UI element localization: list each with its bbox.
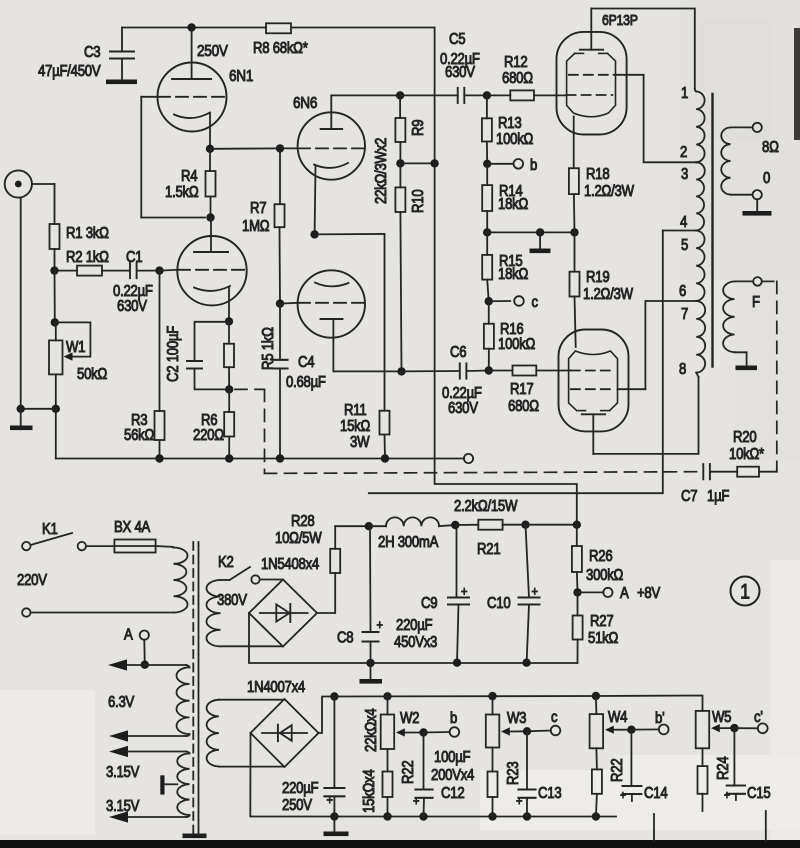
pin 6 [679,283,686,300]
svg-text:56kΩ: 56kΩ [124,427,155,444]
wiper W4 [605,726,631,734]
resistor R22b [592,758,626,816]
svg-text:+: + [327,792,333,807]
wiper W3 [501,727,527,735]
pin 7 [681,306,688,323]
resistor R10 [395,163,427,371]
capacitor C11 220uF 250V [282,697,344,817]
svg-text:5: 5 [681,237,688,254]
resistor R17 [489,366,571,416]
wire feedback dashed F to R20 [762,281,777,469]
wire R1 node to W1 [54,271,56,323]
wire V4 plate to OPT pin8 [593,377,698,454]
wire jack shield to ground [20,198,22,409]
junction W4 wiper node [627,726,659,734]
svg-text:W1: W1 [66,339,85,356]
svg-text:c: c [532,294,538,311]
svg-text:+: + [532,584,538,599]
svg-text:+: + [620,789,626,802]
svg-text:R4: R4 [181,168,198,185]
capacitor C14 [620,730,668,803]
svg-text:1MΩ: 1MΩ [242,218,270,235]
svg-text:3.15V: 3.15V [106,798,140,815]
junction R10 bottom / plate [397,367,405,375]
resistor R23 [488,761,523,816]
svg-text:K2: K2 [218,554,234,571]
terminal 0 [753,170,771,199]
junction R1/R2 [50,266,58,274]
svg-text:1µF: 1µF [707,488,730,505]
junction W1 bottom / ground wire [17,405,61,413]
capacitor C7 [681,464,737,505]
arrow heater feed [108,659,145,670]
svg-text:R17: R17 [510,381,534,398]
wire bridge1 minus to ground bus [249,613,578,663]
wire bias winding to bridge2 [219,700,285,767]
svg-text:250V: 250V [197,43,228,60]
svg-text:+: + [516,793,522,808]
svg-text:C6: C6 [450,344,467,361]
resistor R4 [165,149,216,218]
triode V1b 6N1 lower [177,218,246,322]
potentiometer W5 [696,709,732,766]
junction W3 wiper node [523,727,551,735]
svg-text:630V: 630V [445,64,475,81]
transformer T1 winding 3.15V+3.15V [106,753,190,815]
svg-text:6P13P: 6P13P [602,12,638,28]
svg-text:1: 1 [681,85,688,102]
svg-text:C4: C4 [298,354,315,371]
svg-text:R24: R24 [715,756,732,780]
svg-text:100kΩ: 100kΩ [496,131,534,148]
junction bias rail dots [330,692,600,701]
junction C5/R13/R12 [483,91,491,99]
junction R9/R10 B+ feed [396,159,439,167]
capacitor C2 [165,322,229,390]
resistor R21 [454,498,526,558]
svg-text:1.2Ω/3W: 1.2Ω/3W [583,286,633,303]
svg-text:R11: R11 [344,402,367,419]
junction W1 top [51,318,59,326]
svg-text:R22: R22 [400,760,417,784]
resistor R5 [224,322,277,390]
wire C1 node down to R3 [159,271,161,411]
node 250V label [197,43,228,60]
svg-text:C5: C5 [449,31,466,48]
svg-text:10kΩ*: 10kΩ* [729,446,765,463]
svg-text:1N4007x4: 1N4007x4 [247,679,305,696]
svg-text:22kΩx4: 22kΩx4 [363,708,380,752]
svg-text:680Ω: 680Ω [502,70,533,87]
transformer T2 primary winding [695,89,705,378]
wire V3 plate top cap to OPT pin1 [591,9,695,89]
svg-text:R28: R28 [291,513,315,530]
ground F winding [736,366,758,371]
terminal A +8V [603,585,660,602]
resistor R12 [487,54,567,100]
svg-text:C14: C14 [644,785,668,802]
svg-text:47µF/450V: 47µF/450V [38,63,101,80]
resistor R15 [482,232,528,301]
wire V4 screen to UL tap 6 [618,301,697,389]
svg-text:220µF: 220µF [282,780,319,797]
transformer T2 core [711,94,713,367]
svg-text:6: 6 [679,283,686,300]
wire V1a grid to lower plate [141,97,205,218]
junction heater A node [141,661,149,669]
svg-text:C10: C10 [487,595,511,612]
wire V2b plate to C6 line [333,370,401,372]
svg-text:15kΩx4: 15kΩx4 [361,769,378,813]
svg-text:R9: R9 [410,119,427,136]
capacitor C3 [38,28,134,81]
wire jack to R1 [32,184,55,224]
capacitor C8 [337,526,383,663]
junction C10 node [521,521,529,529]
junction ground bus dots [366,659,531,668]
svg-text:R26: R26 [589,548,613,565]
svg-text:51kΩ: 51kΩ [588,630,619,647]
switch K1 [22,521,86,550]
svg-text:R10: R10 [410,189,427,213]
arrow 6.3V return [109,730,190,741]
junction common cathodes [310,230,318,238]
junction R11 bottom [381,454,389,462]
svg-text:18kΩ: 18kΩ [498,196,529,213]
wire bias plus rail [334,696,702,711]
svg-text:+8V: +8V [637,585,661,602]
wire V3 screen to UL tap 2 [614,75,697,163]
junction bottom rail dots [330,812,600,820]
pin 8 [679,361,686,378]
resistor R16 [484,301,536,370]
junction plate/R9 [396,91,404,99]
svg-text:3.15V: 3.15V [106,764,140,781]
svg-text:R8 68kΩ*: R8 68kΩ* [253,40,308,57]
svg-text:1.2Ω/3W: 1.2Ω/3W [584,183,634,200]
resistor R1 [50,224,110,249]
label 220V [17,572,47,589]
ground bias rail [324,817,349,837]
switch K2 [217,554,283,609]
terminal F [752,277,762,311]
svg-text:8: 8 [679,361,686,378]
svg-text:R5 1kΩ: R5 1kΩ [260,327,277,370]
junction C4 bottom [276,454,284,462]
svg-text:BX 4A: BX 4A [114,519,151,536]
ground bias row [530,232,551,253]
svg-text:R20: R20 [733,429,757,446]
svg-text:18kΩ: 18kΩ [498,266,529,283]
svg-text:22kΩ/3Wx2: 22kΩ/3Wx2 [373,138,390,204]
svg-text:c: c [551,709,557,726]
svg-text:+: + [413,793,419,808]
triode V2a 6N6 upper [280,95,365,234]
triode V2b 6N6 lower [280,270,365,371]
terminal c [514,294,538,311]
terminal ground bus end [464,454,473,463]
transformer T2 feedback winding F [723,281,753,365]
svg-text:C13: C13 [538,785,562,802]
junction lower 6N6 grid node [276,299,284,307]
svg-text:C9: C9 [421,595,438,612]
wire cathodes to R11 [315,234,385,411]
wire cathode node to 6N6 grid [210,147,280,149]
capacitor C6 [402,344,489,417]
svg-text:R22: R22 [609,758,626,782]
pin 3 [681,166,688,183]
terminal b bias [450,710,460,737]
capacitor C9 [394,525,469,663]
wiper W5 [711,724,734,732]
pentode V4 6P13P lower [559,330,629,454]
transformer T1 winding 6.3V [108,667,190,734]
ground secondary [743,199,772,215]
svg-text:630V: 630V [117,298,147,315]
label 22k value [373,138,390,204]
svg-text:C3: C3 [84,44,101,61]
svg-text:C7: C7 [681,488,698,505]
terminal A heater [124,627,149,665]
svg-text:4: 4 [680,214,687,231]
wire B+ rail drop to filter [435,28,577,525]
svg-text:+: + [377,617,383,632]
svg-text:+: + [724,789,730,802]
junction W5 wiper node [730,724,758,732]
resistor R24 [698,756,733,811]
svg-text:b: b [450,710,457,727]
svg-text:300kΩ: 300kΩ [586,567,624,584]
svg-text:50kΩ: 50kΩ [77,366,108,383]
terminal c-prime [754,709,768,733]
wiper W2 [396,728,424,736]
svg-text:C1: C1 [126,249,143,266]
svg-text:c': c' [754,709,763,726]
ground main filter [360,663,383,684]
resistor R19 [570,232,634,347]
svg-text:W2: W2 [400,710,419,727]
svg-text:630V: 630V [448,400,478,417]
fuse BX 4A [86,519,172,552]
svg-text:2H 300mA: 2H 300mA [378,534,439,551]
resistor R28 [275,513,369,573]
wire V2a plate to C5 line [331,94,400,96]
svg-text:6N6: 6N6 [293,95,317,112]
capacitor C15 [724,728,771,802]
wire ground bus preamp [56,409,464,459]
svg-text:+: + [461,584,467,599]
svg-text:220Ω: 220Ω [193,427,224,444]
capacitor C4 [272,304,326,459]
transformer T2 secondary 8ohm [721,127,752,194]
resistor R22 15kx4 [361,760,417,816]
wire A node to 6.3V winding [145,665,190,667]
pin 4 [680,214,687,231]
svg-text:R7: R7 [250,200,267,217]
svg-text:R21: R21 [477,541,501,558]
resistor R13 [482,95,534,163]
junction R15/R16/c [485,297,511,305]
capacitor C10 [487,525,540,663]
potentiometer W3 [486,696,527,771]
resistor R26 [572,525,624,593]
pin 5 [681,237,688,254]
pin 1 [681,85,688,102]
junction V1a cathode node [206,145,214,153]
wire feedback dashed from cathode [235,389,700,473]
junction C1 / grid / R3 [155,266,163,274]
svg-text:1.5kΩ: 1.5kΩ [165,184,199,201]
svg-text:15kΩ: 15kΩ [340,418,371,435]
arrow 3.15V top [109,746,190,757]
triode V1a 6N1 upper [158,28,254,149]
bridge rectifier 1N4007x4 [247,679,319,767]
svg-text:R13: R13 [498,115,522,132]
pentode V3 6P13P upper [557,9,638,169]
svg-text:0: 0 [763,170,770,187]
transformer T1 primary 220V [172,547,188,613]
scanner edge mark right [794,28,800,140]
terminal mains lower [22,608,173,616]
junction choke input node [365,522,373,530]
svg-text:W3: W3 [507,710,526,727]
junction preamp B+ node [573,521,581,529]
svg-text:0.68µF: 0.68µF [286,374,326,391]
junction C6/R16/R17 [485,366,493,374]
svg-text:C15: C15 [747,785,771,802]
terminal b-prime [655,710,669,734]
capacitor C12 [413,733,474,817]
potentiometer W1 [49,322,108,408]
wire B+ centre tap [369,231,696,494]
svg-text:10Ω/5W: 10Ω/5W [275,530,322,547]
svg-text:R23: R23 [505,761,522,785]
svg-text:6N1: 6N1 [229,68,253,85]
svg-text:200Vx4: 200Vx4 [431,767,474,784]
svg-text:450Vx3: 450Vx3 [394,634,437,651]
svg-text:b: b [530,157,537,174]
ground core [183,834,207,839]
capacitor C5 [400,31,487,103]
scanner black bar bottom [0,840,800,848]
svg-text:100kΩ: 100kΩ [498,336,536,353]
svg-text:R27: R27 [590,613,614,630]
resistor R18 [569,166,635,232]
wire scan cut stubs [654,811,766,841]
svg-text:C2 100µF: C2 100µF [165,325,182,382]
terminal 8 ohm [753,123,780,157]
svg-text:b': b' [655,710,665,727]
svg-text:380V: 380V [217,592,247,609]
svg-text:7: 7 [681,306,688,323]
arrow 3.15V bottom [109,811,190,822]
svg-text:W4: W4 [608,709,627,726]
junction V1a grid node [276,144,284,152]
wire bias ground row [483,228,579,236]
transformer T1 core [193,542,198,834]
junction top rail / V1 plate [187,23,195,31]
wire bridge2 minus to bottom rail [250,733,616,817]
svg-text:2: 2 [680,144,687,161]
resistor R3 [124,411,165,459]
svg-text:A: A [620,585,629,602]
svg-text:3: 3 [681,166,688,183]
svg-text:6.3V: 6.3V [108,694,135,711]
resistor R6 [193,389,234,458]
circled figure 1 [731,577,760,606]
capacitor C13 [516,731,562,816]
svg-text:2.2kΩ/15W: 2.2kΩ/15W [454,498,518,515]
resistor R2 [55,249,130,276]
junction C9 node [451,521,459,529]
resistor R27 [573,592,619,662]
svg-text:C12: C12 [441,785,465,802]
svg-text:1N5408x4: 1N5408x4 [261,556,319,573]
svg-text:K1: K1 [42,521,58,538]
svg-text:220µF: 220µF [396,617,433,634]
resistor R20 [729,429,777,477]
potentiometer W4 [590,696,628,769]
junction A +8V node [573,588,603,596]
svg-text:250V: 250V [282,797,312,814]
wire C1 node to V1b grid [160,269,179,272]
junction R6 bottom [155,454,233,462]
svg-text:680Ω: 680Ω [508,398,539,415]
resistor R8 [253,23,308,57]
svg-text:R2 1kΩ: R2 1kΩ [66,249,109,266]
junction W2 wiper node [419,728,449,736]
svg-text:A: A [124,627,133,644]
junction R4 bottom / V1b plate [206,213,214,221]
svg-text:C8: C8 [337,630,354,647]
terminal c bias [551,709,561,735]
svg-text:W5: W5 [712,709,731,726]
svg-text:3W: 3W [350,434,370,451]
centre tap 3.15V [160,775,177,794]
wire bridge1 plus to R28 [317,573,335,613]
junction V1b cathode [225,317,233,325]
junction R5/R6/feedback [225,385,233,393]
resistor R7 [242,148,285,303]
svg-text:R19: R19 [586,269,610,286]
svg-text:R12: R12 [504,54,528,71]
transformer T1 bias winding [207,700,219,767]
potentiometer W2 22kx4 [363,696,419,771]
input jack J1 [5,170,32,197]
resistor R11 [340,402,390,458]
choke L1 2H 300mA [369,517,456,551]
svg-text:1: 1 [740,580,750,604]
pin 2 [680,144,687,161]
bridge rectifier 1N5408x4 [249,556,319,646]
wire 250V B+ rail top [122,27,435,29]
transformer T1 secondary 380V [206,580,282,646]
terminal b [514,157,538,174]
ground input [10,409,33,430]
svg-text:100µF: 100µF [434,749,471,766]
capacitor C1 [113,249,160,315]
svg-text:220V: 220V [17,572,47,589]
svg-text:F: F [752,294,760,311]
junction R13/R14/b [483,160,514,168]
svg-text:R1 3kΩ: R1 3kΩ [66,225,109,242]
resistor R14 [482,164,528,233]
ground for C3 [106,80,137,85]
resistor R9 [395,95,427,163]
svg-text:8Ω: 8Ω [762,139,779,156]
svg-text:R18: R18 [586,166,610,183]
wire bridge2 plus output [319,697,335,734]
